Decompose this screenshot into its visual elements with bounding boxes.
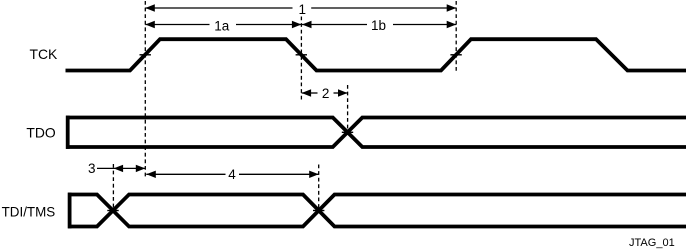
dimension 2 left arrowhead xyxy=(302,89,312,96)
dimension 1b right arrowhead xyxy=(447,21,457,28)
TDI/TMS bus rail B (through both crossovers) xyxy=(68,195,686,227)
svg-text:2: 2 xyxy=(322,86,330,101)
tick at TDI/TMS first crossover center xyxy=(107,210,118,212)
dimension 1a left arrowhead xyxy=(145,21,155,28)
dimension 2 shaft (TCK fall to TDO transition) xyxy=(302,92,318,94)
svg-text:1: 1 xyxy=(298,2,306,17)
svg-text:3: 3 xyxy=(88,161,96,176)
dimension 1b shaft (TCK low time) xyxy=(302,24,367,26)
dimension 4 left arrowhead xyxy=(146,171,156,178)
TDO bus rail A (top-to-bottom through crossover) xyxy=(66,118,686,148)
TCK clock waveform xyxy=(66,39,687,70)
dashed extension line at TCK second rising edge x=456 xyxy=(455,1,457,71)
tick at TDO crossover center xyxy=(342,131,353,133)
svg-text:JTAG_01: JTAG_01 xyxy=(629,237,675,249)
svg-text:TDI/TMS: TDI/TMS xyxy=(2,204,56,219)
svg-text:4: 4 xyxy=(228,167,236,182)
svg-text:1a: 1a xyxy=(214,18,230,33)
dimension 3 right arrowhead xyxy=(136,165,146,172)
svg-text:TDO: TDO xyxy=(26,125,56,141)
svg-text:TCK: TCK xyxy=(30,46,59,62)
tick at TCK first rising edge midpoint xyxy=(140,54,151,56)
dashed extension line at TDI/TMS first crossover x=113.5 xyxy=(112,164,114,211)
dimension 3 leader and shaft (TDI/TMS setup) xyxy=(97,167,145,169)
dashed extension line at TCK first rising edge x=145 xyxy=(144,1,146,178)
dimension 4 right arrowhead xyxy=(309,171,319,178)
dashed extension line at TDO crossover x=347.5 xyxy=(347,85,349,133)
dimension 1a right arrowhead xyxy=(292,21,302,28)
dimension 2 right arrowhead xyxy=(338,89,348,96)
dimension 3 left arrowhead xyxy=(114,165,124,172)
svg-text:1b: 1b xyxy=(371,18,386,33)
dimension 1 left arrowhead xyxy=(145,4,155,11)
TDI/TMS bus left end cap xyxy=(68,193,72,229)
TDO bus left end cap xyxy=(66,116,70,149)
tick at TCK falling edge midpoint xyxy=(296,54,307,56)
dimension 1b left arrowhead xyxy=(302,21,312,28)
tick at TCK second rising edge midpoint xyxy=(450,54,461,56)
dashed extension line at TDI/TMS second crossover x=318.7 xyxy=(318,165,320,212)
dimension 1a shaft (TCK high time) xyxy=(145,24,209,26)
tick at TDI/TMS second crossover center xyxy=(313,210,324,212)
dimension 4 shaft (TDI/TMS hold) xyxy=(146,173,225,175)
TDO bus rail B (bottom-to-top through crossover) xyxy=(66,118,686,148)
TDI/TMS bus rail A (through both crossovers) xyxy=(68,195,686,227)
dimension 1 right arrowhead xyxy=(447,4,457,11)
dimension 1 shaft (TCK period) xyxy=(145,7,292,9)
dashed extension line at TCK falling edge x=301.5 xyxy=(300,17,302,101)
